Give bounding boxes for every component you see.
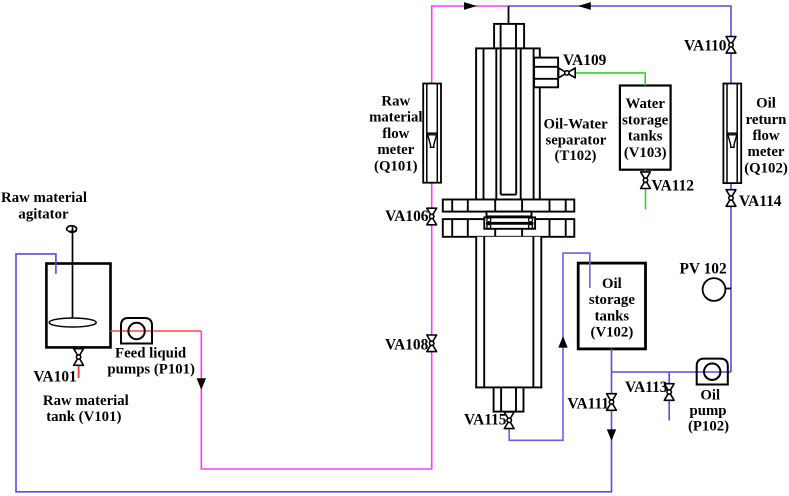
wire: magenta line pump P101 down, along bottom, up through Q101 to column top bbox=[201, 6, 508, 469]
svg-text:flow: flow bbox=[752, 128, 779, 144]
svg-text:tank (V101): tank (V101) bbox=[46, 409, 121, 425]
svg-text:tanks: tanks bbox=[628, 129, 663, 145]
svg-text:meter: meter bbox=[748, 144, 785, 160]
svg-text:(Q102): (Q102) bbox=[744, 160, 788, 176]
svg-text:separator: separator bbox=[545, 133, 606, 149]
wire: green drain stub through valve VA112 bbox=[645, 170, 647, 210]
column lower flange bbox=[443, 219, 575, 237]
svg-text:agitator: agitator bbox=[18, 207, 69, 223]
svg-text:Raw: Raw bbox=[381, 93, 410, 109]
valve VA111 bbox=[607, 394, 617, 411]
column upper flange bbox=[443, 200, 575, 217]
pump P102 (oil pump) bbox=[697, 359, 728, 385]
svg-text:Water: Water bbox=[625, 96, 665, 112]
svg-text:VA101: VA101 bbox=[33, 369, 76, 386]
wire: blue drain stub through valve VA113 bbox=[668, 372, 670, 420]
valve VA110 bbox=[726, 37, 736, 54]
flow arrow down on magenta drop line bbox=[197, 378, 206, 389]
tank V103 (water storage tanks) bbox=[620, 86, 671, 170]
svg-text:(T102): (T102) bbox=[555, 148, 597, 164]
flow arrow right on magenta header bbox=[464, 2, 477, 10]
op column T102: top cap bbox=[494, 24, 524, 49]
svg-text:VA108: VA108 bbox=[385, 336, 429, 353]
svg-text:PV 102: PV 102 bbox=[680, 260, 727, 277]
svg-text:tanks: tanks bbox=[595, 308, 630, 324]
svg-text:pumps (P101): pumps (P101) bbox=[107, 362, 195, 378]
wire: black riser from top header into column cap bbox=[508, 6, 510, 24]
column side condenser stub bbox=[534, 58, 558, 88]
flow arrow down on blue VA111 line bbox=[607, 429, 616, 440]
svg-text:storage: storage bbox=[589, 292, 635, 308]
svg-text:(V103): (V103) bbox=[624, 145, 667, 161]
svg-text:VA106: VA106 bbox=[385, 208, 429, 225]
svg-text:VA109: VA109 bbox=[563, 52, 607, 69]
flow arrow left on blue header bbox=[578, 2, 591, 10]
wire: green line from valve VA109 to water tank V103 bbox=[575, 73, 645, 86]
svg-text:VA110: VA110 bbox=[684, 38, 727, 55]
instrument PV 102 bbox=[703, 278, 731, 301]
valve VA112 bbox=[641, 172, 651, 189]
column bottom nozzle bbox=[494, 387, 524, 411]
wire: red feed line tank V101 to pump P101 to corner bbox=[111, 330, 202, 332]
valve VA106 bbox=[427, 208, 437, 225]
valve VA113 bbox=[664, 384, 674, 401]
svg-text:Oil: Oil bbox=[700, 387, 720, 403]
tank V102 (oil storage tanks) bbox=[578, 263, 645, 349]
svg-text:(P102): (P102) bbox=[688, 419, 729, 435]
svg-text:Oil: Oil bbox=[756, 96, 776, 112]
valve VA108 bbox=[427, 335, 437, 352]
svg-text:storage: storage bbox=[622, 112, 668, 128]
svg-text:VA111: VA111 bbox=[567, 396, 609, 413]
svg-text:Feed liquid: Feed liquid bbox=[115, 345, 187, 361]
flow arrow up on blue recycle riser bbox=[558, 336, 567, 348]
svg-text:VA113: VA113 bbox=[625, 379, 668, 396]
op column T102: lower shell bbox=[475, 237, 542, 388]
wire: red drain stub through valve VA101 bbox=[78, 347, 80, 378]
svg-text:VA114: VA114 bbox=[739, 193, 782, 210]
valve VA115 bbox=[504, 412, 514, 429]
svg-text:Oil-Water: Oil-Water bbox=[544, 116, 609, 132]
svg-text:VA115: VA115 bbox=[464, 412, 507, 429]
svg-text:VA112: VA112 bbox=[652, 178, 695, 195]
wire: blue line column bottom VA115 up into oil tank V102 bbox=[509, 253, 590, 440]
wire: blue top line from column to right riser down to oil pump bbox=[509, 6, 732, 372]
column gasket sight-glass between flanges bbox=[484, 217, 535, 228]
op column T102: upper shell bbox=[476, 48, 540, 199]
wire: blue line oil tank V102 to oil pump P102 bbox=[612, 371, 732, 373]
valve VA101 bbox=[74, 349, 84, 366]
tank V101 (raw material tank) bbox=[46, 264, 110, 348]
svg-text:(V102): (V102) bbox=[591, 325, 634, 341]
svg-text:flow: flow bbox=[382, 126, 409, 142]
valve VA114 bbox=[726, 190, 736, 207]
svg-text:Oil: Oil bbox=[602, 276, 622, 292]
wire: blue recycle line V102 bottom through VA111 along bottom and up left into tank V101 bbox=[16, 254, 612, 492]
flow meter Q101 bbox=[423, 84, 441, 183]
flow meter Q102 bbox=[723, 84, 741, 184]
valve VA109 (horizontal) bbox=[559, 68, 576, 78]
svg-text:pump: pump bbox=[689, 403, 726, 419]
pump P101 (feed liquid pump) bbox=[121, 318, 152, 344]
svg-text:Raw material: Raw material bbox=[1, 190, 87, 206]
agitator shaft and impeller in tank V101 bbox=[49, 226, 96, 327]
svg-text:material: material bbox=[369, 110, 422, 126]
svg-text:(Q101): (Q101) bbox=[374, 159, 418, 175]
svg-text:return: return bbox=[746, 112, 787, 128]
svg-text:Raw material: Raw material bbox=[43, 393, 129, 409]
svg-text:meter: meter bbox=[377, 142, 414, 158]
